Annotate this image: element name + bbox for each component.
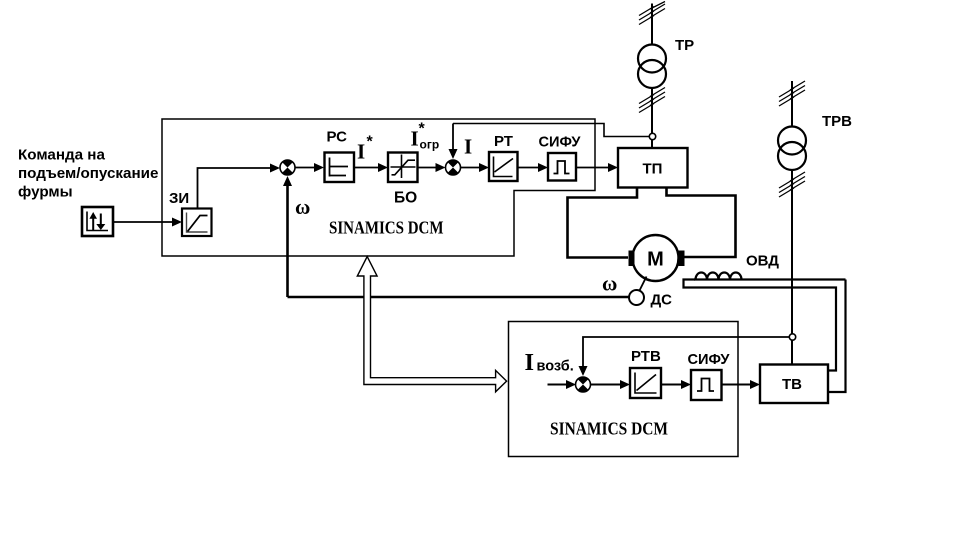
- supply line ТРВ (3-phase): [779, 81, 805, 365]
- ramp generator ЗИ: [169, 190, 212, 236]
- motor M: [629, 235, 685, 281]
- svg-text:ТВ: ТВ: [782, 376, 802, 393]
- svg-text:возб.: возб.: [537, 359, 574, 375]
- pulse unit СИФУ (lower): [688, 352, 731, 400]
- svg-text:ТР: ТР: [675, 37, 694, 54]
- lower SINAMICS DCM enclosure: [509, 322, 739, 457]
- wire: РТ to СИФУ: [518, 163, 549, 172]
- wire: summing node 2 to РТ: [461, 163, 490, 172]
- svg-text:огр: огр: [420, 138, 440, 152]
- label Iвозб.: [525, 349, 574, 376]
- pulse unit СИФУ (upper): [539, 135, 582, 181]
- svg-text:I: I: [411, 127, 419, 151]
- svg-text:I: I: [464, 135, 472, 159]
- wire: summing node 3 to РТВ: [591, 380, 631, 389]
- wire: ЗИ to summing node 1: [198, 164, 281, 209]
- svg-text:СИФУ: СИФУ: [688, 352, 731, 368]
- thyristor converter ТП: [618, 148, 688, 188]
- svg-text:ω: ω: [295, 195, 310, 219]
- current transducer tap (lower): [789, 334, 795, 340]
- svg-text:*: *: [419, 121, 426, 138]
- wire: СИФУ to ТП: [576, 163, 618, 172]
- field wire A (coil left to ТВ): [684, 280, 837, 371]
- command input block (raise/lower switch): [82, 207, 113, 236]
- svg-text:ТРВ: ТРВ: [822, 113, 852, 130]
- svg-text:М: М: [647, 249, 664, 271]
- transformer ТР: [638, 37, 694, 88]
- field winding ОВД: [694, 253, 846, 280]
- wire: РС to БО: [354, 163, 388, 172]
- speed controller РС: [325, 129, 355, 183]
- label I*огр: [411, 121, 440, 152]
- upper SINAMICS DCM enclosure: [162, 119, 595, 256]
- field wire B (coil right to ТВ): [828, 280, 846, 393]
- svg-text:ω: ω: [602, 272, 617, 296]
- field converter ТВ: [760, 365, 828, 404]
- summing node 2: [446, 160, 461, 175]
- wire: excitation setpoint input: [548, 380, 577, 389]
- current feedback wire (upper): [449, 124, 651, 160]
- svg-text:*: *: [367, 134, 374, 151]
- limiter БО: [388, 153, 418, 207]
- svg-text:РТ: РТ: [494, 133, 513, 150]
- svg-text:фурмы: фурмы: [18, 184, 73, 201]
- hollow interconnect arrow: [357, 257, 506, 392]
- current transducer tap (upper): [649, 133, 655, 139]
- svg-text:БО: БО: [394, 190, 417, 207]
- excitation current feedback wire: [579, 337, 790, 376]
- wire: summing node 1 to РС: [295, 163, 324, 172]
- field controller РТВ: [630, 348, 661, 398]
- speed feedback wire: [283, 176, 629, 297]
- wire: СИФУ to ТВ: [722, 380, 761, 389]
- svg-text:SINAMICS DCM: SINAMICS DCM: [550, 419, 668, 439]
- svg-text:РТВ: РТВ: [631, 348, 661, 365]
- armature wire left: [568, 188, 638, 258]
- svg-text:подъем/опускание: подъем/опускание: [18, 165, 158, 182]
- wire: РТВ to СИФУ (lower): [661, 380, 691, 389]
- summing node 1: [280, 160, 295, 175]
- label I*: [357, 134, 374, 164]
- svg-text:I: I: [525, 349, 535, 376]
- svg-text:ОВД: ОВД: [746, 253, 779, 270]
- svg-text:I: I: [357, 140, 365, 164]
- svg-text:SINAMICS DCM: SINAMICS DCM: [329, 218, 444, 238]
- transformer ТРВ: [778, 113, 852, 170]
- wire: БО to summing node 2: [418, 163, 446, 172]
- svg-text:ДС: ДС: [651, 292, 673, 309]
- svg-text:Команда на: Команда на: [18, 147, 105, 164]
- svg-text:РС: РС: [327, 129, 348, 146]
- svg-text:СИФУ: СИФУ: [539, 135, 582, 151]
- armature wire right: [667, 188, 736, 258]
- speed sensor ДС: [629, 290, 672, 309]
- current controller РТ: [489, 133, 518, 181]
- label: Команда на подъем/опускание фурмы: [18, 147, 158, 201]
- supply line ТР (3-phase): [639, 2, 665, 149]
- wire: command to ЗИ: [114, 218, 183, 227]
- svg-text:ТП: ТП: [643, 161, 663, 178]
- tacho shaft: [640, 277, 647, 291]
- svg-text:ЗИ: ЗИ: [169, 190, 189, 207]
- summing node 3: [576, 377, 591, 392]
